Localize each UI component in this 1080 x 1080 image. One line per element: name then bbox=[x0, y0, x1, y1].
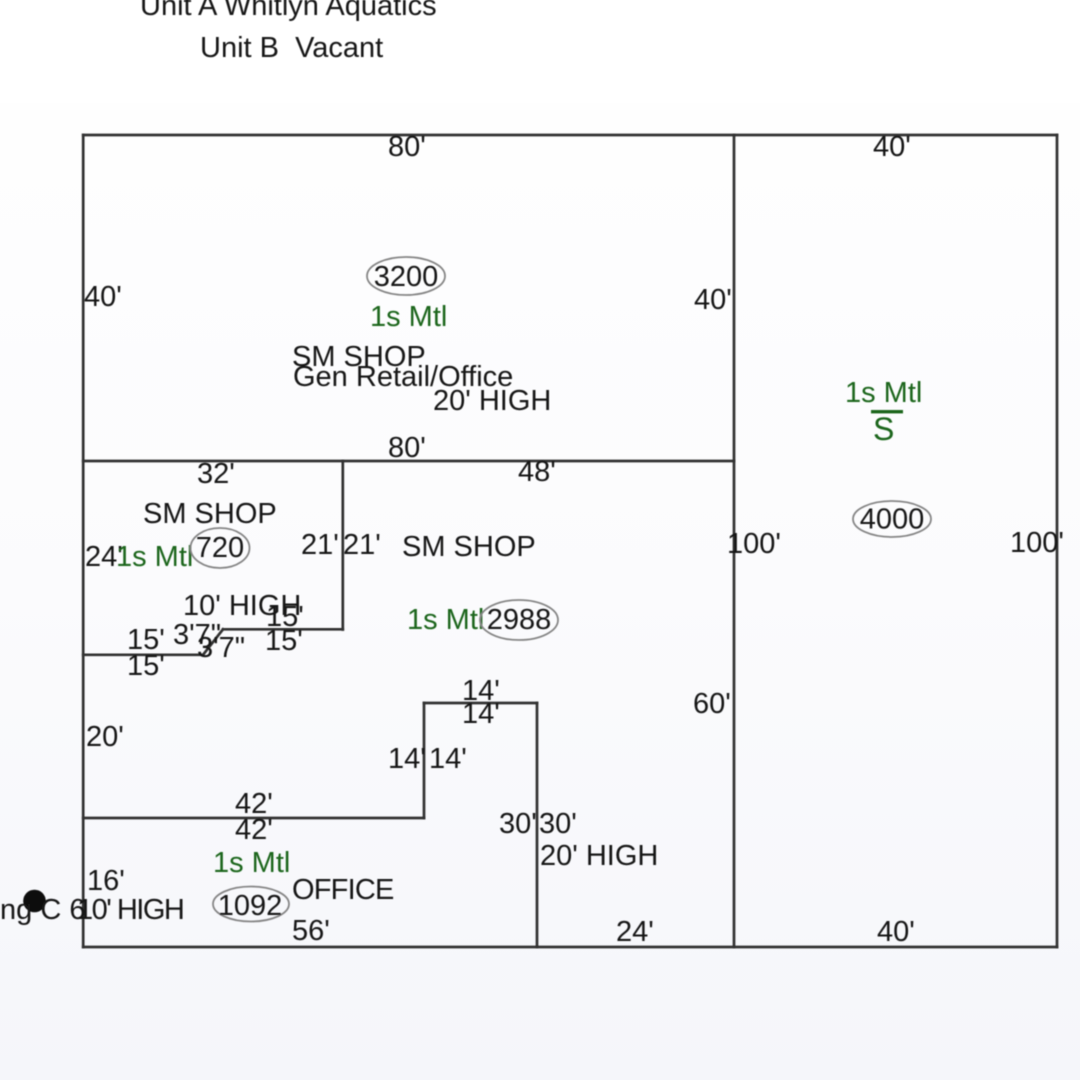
svg-text:3'7": 3'7" bbox=[197, 632, 245, 664]
wire left wall bbox=[82, 135, 85, 947]
fraction bar unit B bbox=[871, 410, 903, 413]
svg-text:1092: 1092 bbox=[218, 890, 283, 922]
svg-text:15': 15' bbox=[127, 650, 165, 682]
svg-text:Unit B Vacant: Unit B Vacant bbox=[200, 32, 383, 64]
svg-text:SM SHOP: SM SHOP bbox=[402, 531, 536, 563]
svg-text:4000: 4000 bbox=[860, 504, 925, 536]
svg-text:20': 20' bbox=[86, 721, 124, 753]
wire bottom edge bbox=[83, 946, 1057, 949]
wire top edge bbox=[83, 134, 1057, 137]
wire jog lower 15' segment bbox=[83, 653, 203, 656]
wire horizontal divider at y=817 bbox=[83, 817, 424, 820]
svg-text:1s Mtl: 1s Mtl bbox=[213, 847, 290, 879]
svg-text:100': 100' bbox=[727, 528, 781, 560]
svg-text:S: S bbox=[873, 411, 894, 447]
wire vertical divider at x=734 bbox=[733, 135, 736, 947]
svg-text:60': 60' bbox=[693, 688, 731, 720]
svg-text:ng C 6: ng C 6 bbox=[0, 894, 85, 926]
svg-text:OFFICE: OFFICE bbox=[292, 874, 394, 906]
svg-text:20' HIGH: 20' HIGH bbox=[433, 385, 551, 417]
svg-text:42': 42' bbox=[235, 814, 273, 846]
svg-text:21': 21' bbox=[301, 529, 339, 561]
svg-text:10' HIGH: 10' HIGH bbox=[77, 894, 183, 926]
svg-text:15': 15' bbox=[265, 625, 303, 657]
svg-text:21': 21' bbox=[343, 529, 381, 561]
wire vertical divider at x=344.5 bbox=[341, 461, 344, 630]
area bubble 1092 bbox=[213, 887, 289, 922]
node marker dot bbox=[23, 890, 46, 913]
svg-text:16': 16' bbox=[87, 865, 125, 897]
area bubble 2988 bbox=[480, 600, 558, 640]
svg-text:SM SHOP: SM SHOP bbox=[143, 498, 277, 530]
svg-text:1s Mtl: 1s Mtl bbox=[407, 604, 484, 636]
svg-text:14': 14' bbox=[429, 743, 467, 775]
svg-text:100': 100' bbox=[1010, 527, 1064, 559]
wire step left vertical x=424 bbox=[423, 703, 426, 818]
svg-text:24': 24' bbox=[616, 916, 654, 948]
area bubble 3200 bbox=[367, 257, 445, 295]
svg-text:720: 720 bbox=[196, 532, 244, 564]
wire right wall bbox=[1056, 135, 1059, 947]
svg-text:48': 48' bbox=[518, 456, 556, 488]
svg-text:Unit A Whitlyn Aquatics: Unit A Whitlyn Aquatics bbox=[140, 0, 437, 22]
svg-text:3200: 3200 bbox=[374, 261, 439, 293]
wire horizontal divider at y=461 bbox=[83, 460, 734, 463]
svg-text:14': 14' bbox=[388, 743, 426, 775]
svg-text:14': 14' bbox=[462, 698, 500, 730]
svg-text:56': 56' bbox=[292, 915, 330, 947]
wire jog diagonal 3'7" segment bbox=[203, 629, 223, 655]
area bubble 4000 bbox=[853, 501, 931, 537]
wire step right vertical x=537 bbox=[536, 703, 539, 947]
svg-text:40': 40' bbox=[694, 284, 732, 316]
svg-text:40': 40' bbox=[84, 281, 122, 313]
svg-text:20' HIGH: 20' HIGH bbox=[540, 840, 658, 872]
svg-text:40': 40' bbox=[877, 916, 915, 948]
svg-text:1s Mtl: 1s Mtl bbox=[845, 377, 922, 409]
svg-text:80': 80' bbox=[388, 432, 426, 464]
area bubble 720 bbox=[191, 528, 250, 568]
svg-text:1s Mtl: 1s Mtl bbox=[116, 541, 193, 573]
svg-text:30': 30' bbox=[499, 808, 537, 840]
svg-text:32': 32' bbox=[197, 458, 235, 490]
svg-text:80': 80' bbox=[388, 131, 426, 163]
svg-text:30': 30' bbox=[539, 808, 577, 840]
wire step top y=703 bbox=[424, 702, 537, 705]
svg-text:2988: 2988 bbox=[487, 604, 552, 636]
svg-text:40': 40' bbox=[873, 131, 911, 163]
wire jog upper 15' segment bbox=[223, 628, 343, 631]
svg-text:1s Mtl: 1s Mtl bbox=[370, 301, 447, 333]
